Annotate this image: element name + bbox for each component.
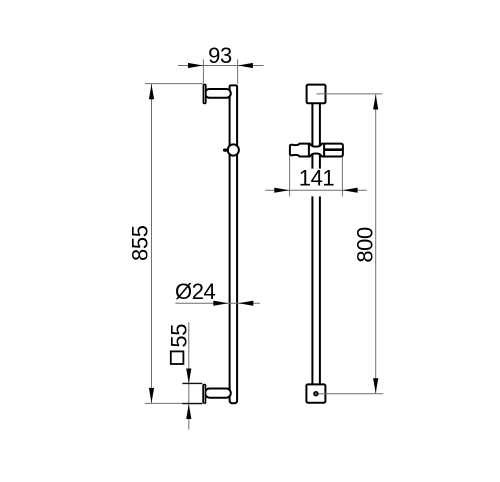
svg-text:93: 93 (208, 43, 232, 68)
svg-text:141: 141 (299, 166, 335, 191)
svg-text:Ø24: Ø24 (175, 279, 216, 304)
svg-text:55: 55 (166, 324, 191, 348)
svg-text:855: 855 (128, 225, 153, 261)
svg-text:800: 800 (353, 227, 378, 263)
